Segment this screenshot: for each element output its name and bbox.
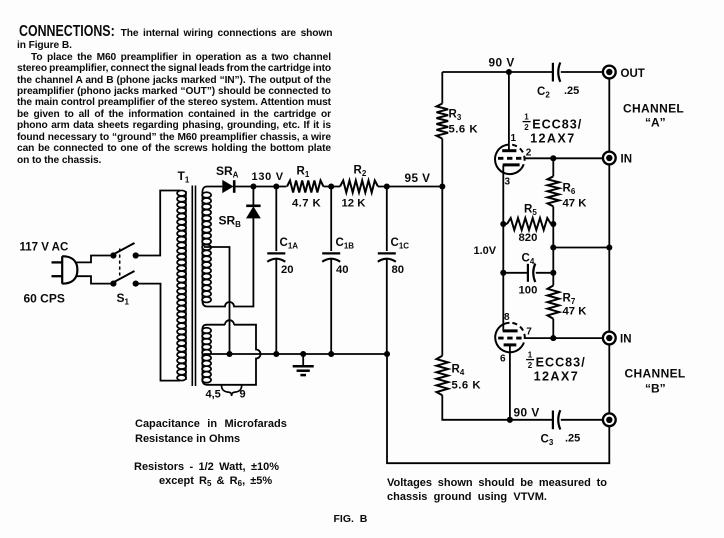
node R2/C1C	[384, 183, 390, 189]
capacitor C1A	[267, 187, 285, 355]
node R1/R2 (C1B)	[328, 183, 334, 189]
capacitor C1C	[378, 187, 396, 355]
svg-text:ECC83/: ECC83/	[532, 118, 582, 132]
wire heater winding top	[202, 325, 260, 385]
svg-text:80: 80	[392, 264, 405, 276]
op-amp/tube U1a half ECC83 triode (channel A)	[495, 72, 525, 224]
svg-text:SRA: SRA	[216, 164, 239, 180]
svg-text:IN: IN	[621, 154, 633, 166]
svg-text:T1: T1	[178, 169, 190, 185]
svg-text:7: 7	[526, 327, 532, 338]
label 1.0V	[474, 245, 497, 257]
wire secondary top to SR_A	[202, 187, 222, 194]
wire R1 to R2	[324, 186, 341, 188]
node bias return	[550, 244, 556, 250]
heater pin brace	[222, 385, 242, 396]
wire plug to switch (lower)	[76, 276, 114, 283]
svg-text:.25: .25	[565, 433, 580, 445]
node center-tap/ground	[226, 351, 232, 357]
svg-text:CHANNEL: CHANNEL	[625, 367, 686, 381]
svg-text:R2: R2	[354, 165, 367, 179]
wire grid A to IN jack	[524, 157, 603, 159]
wire 90V rail A	[442, 71, 552, 73]
svg-text:R1: R1	[297, 166, 310, 180]
label R6	[563, 183, 576, 197]
label 47 K (R6)	[563, 197, 588, 209]
label 80	[392, 264, 405, 276]
svg-text:5.6 K: 5.6 K	[452, 380, 482, 392]
resistor R5	[503, 218, 553, 230]
transformer T1 lower secondary (heater) winding	[202, 328, 211, 383]
wire shell bus IN(B)-OUT(B)	[608, 344, 610, 413]
jack OUT channel B	[603, 413, 616, 426]
resistor R4	[437, 187, 510, 420]
svg-text:“B”: “B”	[645, 382, 666, 396]
label 4,5	[206, 389, 221, 401]
svg-text:4.7 K: 4.7 K	[292, 197, 321, 209]
svg-text:8: 8	[504, 312, 510, 323]
svg-text:47 K: 47 K	[563, 305, 588, 317]
svg-text:2: 2	[528, 361, 533, 370]
label C1C	[391, 237, 410, 251]
svg-text:12 K: 12 K	[342, 197, 367, 209]
transformer T1 core	[192, 186, 195, 387]
svg-text:R7: R7	[563, 293, 576, 307]
svg-text:6: 6	[500, 354, 506, 365]
label OUT	[621, 68, 645, 80]
label C1B	[336, 237, 355, 251]
svg-text:OUT: OUT	[621, 68, 645, 80]
wire secondary center tap	[204, 247, 230, 354]
wire ground bus	[204, 353, 387, 355]
svg-text:12AX7: 12AX7	[534, 370, 580, 384]
resistor R7	[548, 273, 560, 338]
node C4 / R7	[550, 270, 556, 276]
label 1/2 ECC83/12AX7 (B)	[526, 351, 586, 384]
rectifier SR_B	[246, 206, 260, 218]
label 90 V (A)	[489, 56, 515, 70]
label CHANNEL "B"	[625, 367, 686, 396]
label IN (B)	[620, 334, 632, 346]
AC plug P1 (117 V AC)	[52, 256, 78, 284]
svg-text:90 V: 90 V	[514, 406, 540, 420]
svg-text:IN: IN	[620, 334, 632, 346]
label R1	[297, 166, 310, 180]
label 47 K (R7)	[563, 305, 588, 317]
label .25 (C3)	[565, 433, 580, 445]
label 9	[240, 389, 246, 401]
wire hop (heater top over center tap)	[225, 320, 234, 325]
node ground symbol junction	[300, 351, 306, 357]
label 100	[519, 285, 538, 297]
svg-text:20: 20	[281, 264, 294, 276]
wire switch to primary (upper)	[136, 191, 180, 256]
node grid B / R7	[550, 335, 556, 341]
svg-text:12AX7: 12AX7	[530, 132, 576, 146]
node 95V (R3/R4)	[439, 183, 445, 189]
svg-text:5.6 K: 5.6 K	[449, 123, 479, 135]
wire cathode line A-B	[502, 224, 504, 331]
node 130V (C1A)	[273, 183, 279, 189]
capacitor C4	[503, 264, 553, 283]
svg-text:1.0V: 1.0V	[474, 245, 497, 257]
svg-text:C4: C4	[522, 253, 535, 267]
label R7	[563, 293, 576, 307]
label 820	[519, 232, 538, 244]
svg-text:1: 1	[528, 351, 533, 360]
node C1B/ground	[328, 351, 334, 357]
wire R2 to 95V node	[378, 186, 442, 188]
label IN (A)	[621, 154, 633, 166]
label SR_B	[219, 214, 242, 230]
svg-text:C1A: C1A	[280, 237, 299, 251]
label R5	[524, 203, 537, 217]
resistor R3	[437, 72, 449, 187]
jack OUT channel A	[603, 66, 616, 79]
svg-text:1: 1	[511, 133, 517, 144]
label 20	[281, 264, 294, 276]
svg-text:R5: R5	[524, 203, 537, 217]
node C1A/ground	[273, 351, 279, 357]
node C1C/ground corner	[384, 351, 390, 357]
wire ground to bottom rail	[387, 354, 609, 463]
svg-text:C3: C3	[541, 434, 554, 448]
svg-text:1: 1	[524, 113, 529, 122]
pin 8	[504, 312, 510, 323]
jack IN channel B	[603, 332, 616, 345]
node grid A / R6	[550, 155, 556, 161]
label R2	[354, 165, 367, 179]
svg-text:47 K: 47 K	[563, 197, 588, 209]
transformer T1 primary winding	[177, 190, 186, 380]
node R5/R6	[550, 221, 556, 227]
resistor R6	[548, 158, 560, 224]
transformer T1 upper secondary winding	[202, 192, 211, 302]
svg-text:“A”: “A”	[645, 116, 666, 130]
svg-text:95 V: 95 V	[405, 171, 431, 185]
node cathode line / C4	[500, 270, 506, 276]
svg-text:3: 3	[505, 177, 511, 188]
svg-text:R6: R6	[563, 183, 576, 197]
pin 2	[526, 148, 532, 159]
svg-text:.25: .25	[564, 85, 579, 97]
label 5.6 K (R3)	[449, 123, 479, 135]
capacitor C1B	[322, 187, 340, 355]
wire SR_B to secondary bottom	[202, 218, 253, 307]
node SR_B junction	[250, 183, 256, 189]
wire grid B to IN jack	[524, 337, 603, 339]
label CHANNEL "A"	[623, 102, 684, 130]
svg-text:SRB: SRB	[219, 214, 242, 230]
svg-text:R4: R4	[452, 364, 465, 378]
ground	[293, 354, 314, 375]
svg-text:40: 40	[336, 264, 349, 276]
pin 6	[500, 354, 506, 365]
svg-text:100: 100	[519, 285, 538, 297]
op-amp/tube U1b half ECC83 triode (channel B)	[495, 323, 525, 420]
svg-text:2: 2	[526, 148, 532, 159]
pin 1	[511, 133, 517, 144]
rectifier SR_A	[223, 180, 234, 193]
label 60 CPS	[24, 292, 65, 306]
node 90V plate A	[506, 69, 512, 75]
svg-text:90 V: 90 V	[489, 56, 515, 70]
label 117 V AC	[20, 242, 69, 254]
capacitor C2	[553, 63, 603, 82]
label R3	[449, 109, 462, 123]
svg-text:C1C: C1C	[391, 237, 410, 251]
svg-text:130 V: 130 V	[252, 171, 284, 183]
svg-text:60 CPS: 60 CPS	[24, 292, 65, 306]
capacitor C3	[510, 410, 603, 429]
label SR_A	[216, 164, 239, 180]
svg-text:2: 2	[524, 123, 529, 132]
node shell bus / bias return	[606, 244, 612, 250]
wire bias return to shell bus	[553, 247, 609, 249]
switch S1 (DPST)	[110, 243, 138, 287]
svg-text:9: 9	[240, 389, 246, 401]
wire plug to switch (upper)	[76, 256, 114, 263]
svg-text:S1: S1	[117, 291, 130, 307]
label 40	[336, 264, 349, 276]
svg-text:CHANNEL: CHANNEL	[623, 102, 684, 116]
wire shell bus IN(A)-IN(B)	[608, 164, 610, 331]
pin 7	[526, 327, 532, 338]
label C3	[541, 434, 554, 448]
label 5.6 K (R4)	[452, 380, 482, 392]
svg-text:ECC83/: ECC83/	[536, 356, 586, 370]
label T1	[178, 169, 190, 185]
label C1A	[280, 237, 299, 251]
node 90V plate B	[507, 417, 513, 423]
wire switch to primary (lower)	[136, 284, 180, 381]
jack IN channel A	[603, 152, 616, 165]
label R4	[452, 364, 465, 378]
label 130 V	[252, 171, 284, 183]
label C2	[537, 86, 550, 100]
label .25 (C2)	[564, 85, 579, 97]
label 4.7 K	[292, 197, 321, 209]
svg-text:820: 820	[519, 232, 538, 244]
label S1	[117, 291, 130, 307]
wire R5/R6 junction down to C4	[552, 224, 554, 273]
label 90 V (B)	[514, 406, 540, 420]
pin 3	[505, 177, 511, 188]
wire shell bus OUT-IN (A)	[608, 78, 610, 151]
svg-text:C1B: C1B	[336, 237, 355, 251]
svg-text:117 V AC: 117 V AC	[20, 242, 69, 254]
label C4	[522, 253, 535, 267]
wire 130V line down to SR_B	[252, 187, 254, 205]
svg-text:4,5: 4,5	[206, 389, 221, 401]
svg-text:C2: C2	[537, 86, 550, 100]
resistor R1	[287, 181, 324, 193]
svg-text:R3: R3	[449, 109, 462, 123]
label 1/2 ECC83/12AX7 (A)	[523, 113, 583, 146]
wire SR_A to 130V node	[235, 186, 287, 188]
label 12 K	[342, 197, 367, 209]
node cathode A / R5	[500, 221, 506, 227]
resistor R2	[340, 181, 378, 193]
label 95 V	[405, 171, 431, 185]
